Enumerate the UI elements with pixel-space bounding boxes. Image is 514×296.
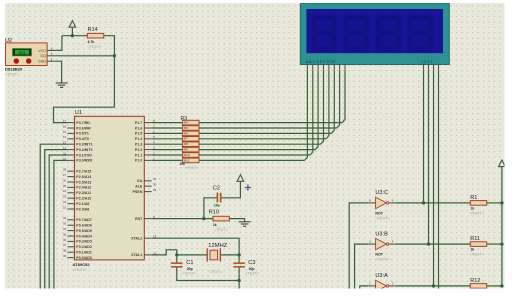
- U1 pin 4 P1.3: [144, 143, 151, 145]
- segment resistor 4: [183, 137, 199, 142]
- U1 pin 38 P0.1/AD1: [67, 251, 74, 253]
- segment resistor 2: [183, 126, 199, 131]
- U1 pin 12 P3.2/INT0: [67, 149, 74, 151]
- svg-text:P2.5/A13: P2.5/A13: [76, 180, 91, 184]
- svg-text:P2.1/A9: P2.1/A9: [76, 202, 89, 206]
- U1 pin 3 P1.2: [144, 149, 151, 151]
- wire segment resistor 7 to LCD pin: [199, 70, 313, 155]
- svg-text:NOT: NOT: [375, 211, 383, 215]
- svg-text:ALE: ALE: [135, 185, 143, 189]
- svg-text:1k: 1k: [471, 248, 475, 252]
- wire P1.7 to segment resistor: [152, 122, 183, 124]
- svg-text:C2: C2: [213, 186, 220, 192]
- svg-text:P1.0: P1.0: [135, 159, 142, 163]
- junction node 114.4,55.8: [113, 54, 116, 57]
- svg-text:1: 1: [51, 58, 53, 62]
- svg-text:XTAL1: XTAL1: [131, 253, 142, 257]
- svg-text:P1.2: P1.2: [135, 148, 142, 152]
- svg-text:R12: R12: [470, 278, 480, 284]
- capacitor C2: [217, 193, 220, 203]
- wire U3:C input: [349, 203, 368, 291]
- svg-text:3: 3: [51, 47, 53, 51]
- U3:C input pin: [368, 202, 375, 204]
- svg-text:GND: GND: [38, 60, 46, 64]
- svg-text:U3:A: U3:A: [375, 273, 388, 279]
- svg-text:U2: U2: [5, 38, 12, 44]
- svg-text:38: 38: [63, 249, 67, 253]
- svg-text:4.7k: 4.7k: [88, 40, 95, 44]
- svg-text:<TEXT>: <TEXT>: [209, 270, 224, 274]
- resistor R10: [213, 216, 229, 221]
- wire P1.5 to segment resistor: [152, 132, 183, 134]
- wire gnd rail down: [238, 281, 240, 292]
- U1 pin 34 P0.5/AD5: [67, 230, 74, 232]
- svg-text:18: 18: [153, 235, 157, 239]
- wire R11 to rail: [487, 243, 502, 245]
- wire segment resistor 5 to LCD pin: [199, 70, 324, 144]
- svg-text:16: 16: [63, 124, 67, 128]
- U3:A output pin: [389, 285, 396, 287]
- segment resistor 1: [183, 120, 199, 125]
- svg-text:13: 13: [63, 141, 67, 145]
- junction node 239.1,254.9: [237, 253, 240, 256]
- svg-text:<TEXT>: <TEXT>: [5, 72, 20, 76]
- svg-text:30p: 30p: [187, 267, 193, 271]
- wire P3.2 to bottom: [45, 150, 68, 291]
- svg-text:R9: R9: [184, 148, 188, 152]
- svg-text:22: 22: [63, 200, 67, 204]
- svg-text:P2.3/A11: P2.3/A11: [76, 191, 91, 195]
- wire C1 bottom to rail: [177, 267, 239, 281]
- svg-text:1k: 1k: [471, 207, 475, 211]
- svg-text:P1.3: P1.3: [135, 143, 142, 147]
- wire power stem top-left: [71, 27, 73, 36]
- svg-text:R8: R8: [184, 142, 188, 146]
- svg-text:<TEXT>: <TEXT>: [375, 216, 390, 220]
- svg-text:P0.7/AD7: P0.7/AD7: [76, 218, 92, 222]
- svg-text:<TEXT>: <TEXT>: [88, 45, 103, 49]
- U1 pin 36 P0.3/AD3: [67, 240, 74, 242]
- U1 pin 18 XTAL2: [144, 237, 151, 239]
- svg-text:23: 23: [63, 195, 67, 199]
- svg-text:C3: C3: [248, 260, 255, 266]
- svg-text:P2.0/A8: P2.0/A8: [76, 207, 89, 211]
- svg-text:DS18B20: DS18B20: [5, 66, 23, 71]
- junction node 176.8,254.9: [175, 253, 178, 256]
- wire R14 row left: [62, 35, 87, 37]
- svg-text:24: 24: [63, 189, 67, 193]
- power symbol top-left: [69, 21, 76, 28]
- wire R12 to rail: [487, 285, 502, 287]
- svg-text:36: 36: [63, 238, 67, 242]
- wire U2 DQ: [57, 55, 115, 57]
- LCD segment pin G: [339, 65, 341, 71]
- svg-text:35: 35: [63, 232, 67, 236]
- svg-text:27.0: 27.0: [19, 51, 26, 55]
- svg-text:21: 21: [63, 205, 67, 209]
- svg-text:NOT: NOT: [375, 253, 383, 257]
- svg-text:27: 27: [63, 173, 67, 177]
- svg-text:10u: 10u: [214, 203, 220, 207]
- wire segment resistor 6 to LCD pin: [199, 70, 318, 149]
- wire segment resistor 4 to LCD pin: [199, 70, 329, 139]
- svg-text:P3.0/RXD: P3.0/RXD: [76, 159, 92, 163]
- wire C2 right to power: [221, 181, 240, 198]
- wire XTAL2 row: [152, 238, 239, 263]
- svg-text:P2.7/A15: P2.7/A15: [76, 170, 91, 174]
- junction node 428.5,244.1: [427, 242, 430, 245]
- svg-text:P0.2/AD2: P0.2/AD2: [76, 245, 92, 249]
- svg-text:XTAL2: XTAL2: [131, 237, 142, 241]
- svg-text:P3.5/T1: P3.5/T1: [76, 132, 89, 136]
- U1 pin 2 P1.1: [144, 154, 151, 156]
- svg-text:P0.0/AD0: P0.0/AD0: [76, 256, 92, 260]
- wire U3:A out to R12: [396, 285, 470, 287]
- svg-text:P1.6: P1.6: [135, 126, 142, 130]
- wire P1.3 to segment resistor: [152, 143, 183, 145]
- svg-text:P1.7: P1.7: [135, 121, 142, 125]
- power symbol right rail: [499, 160, 506, 167]
- U1 pin 32 P0.7/AD7: [67, 219, 74, 221]
- svg-text:P1.5: P1.5: [135, 132, 142, 136]
- svg-text:33: 33: [63, 222, 67, 226]
- LCD digit 4 segments: [407, 14, 435, 52]
- svg-text:<TEXT>: <TEXT>: [470, 211, 485, 215]
- svg-text:R11: R11: [184, 158, 190, 162]
- svg-text:P3.1/TXD: P3.1/TXD: [76, 153, 92, 157]
- svg-text:P3.2/INT0: P3.2/INT0: [76, 148, 92, 152]
- svg-text:R11: R11: [470, 236, 480, 242]
- svg-text:19: 19: [153, 251, 157, 255]
- svg-text:30p: 30p: [249, 267, 255, 271]
- svg-text:<TEXT>: <TEXT>: [182, 272, 197, 276]
- svg-text:26: 26: [63, 178, 67, 182]
- svg-text:17: 17: [63, 119, 67, 123]
- wire C2 left lead: [204, 198, 217, 219]
- wire C3 bottom lead: [238, 267, 240, 281]
- wire P3.0 to bottom: [54, 160, 68, 291]
- inverter gate U3:C: [376, 197, 389, 208]
- wire P1.2 to segment resistor: [152, 149, 183, 151]
- svg-text:P1.1: P1.1: [135, 153, 142, 157]
- resistor R11: [470, 242, 486, 247]
- junction node 433.5,285.9: [432, 284, 435, 287]
- svg-text:<TEXT>: <TEXT>: [214, 228, 229, 232]
- capacitor C1: [171, 263, 183, 267]
- U1 pin 17 P3.7/RD: [67, 122, 74, 124]
- U1 pin 24 P2.3/A11: [67, 192, 74, 194]
- crystal X1 12MHZ: [207, 248, 220, 261]
- wire DQ to U1 pin17: [54, 56, 115, 123]
- U3:C output pin: [389, 202, 396, 204]
- svg-text:P0.3/AD3: P0.3/AD3: [76, 240, 92, 244]
- LCD digit pin 4: [438, 65, 440, 71]
- svg-text:P3.7/RD: P3.7/RD: [76, 121, 90, 125]
- U3:B input pin: [368, 243, 375, 245]
- svg-text:P0.5/AD5: P0.5/AD5: [76, 229, 92, 233]
- microcontroller U1 AT89C52 body: [75, 116, 145, 260]
- LCD digit pin 3: [433, 65, 435, 71]
- resistor R1: [470, 201, 486, 206]
- svg-text:AT89C52: AT89C52: [73, 262, 91, 267]
- segment resistor 6: [183, 147, 199, 152]
- U1 pin 15 P3.5/T1: [67, 132, 74, 134]
- svg-text:31: 31: [153, 177, 157, 181]
- junction node 72.4,35.7: [71, 34, 74, 37]
- svg-text:P2.6/A14: P2.6/A14: [76, 175, 91, 179]
- wire P1.1 to segment resistor: [152, 154, 183, 156]
- svg-text:P0.6/AD6: P0.6/AD6: [76, 224, 92, 228]
- wire U3:B out to R11: [396, 243, 470, 245]
- svg-text:1 2 3 4: 1 2 3 4: [421, 60, 432, 64]
- svg-text:U3:C: U3:C: [375, 190, 388, 196]
- svg-text:<TEXT>: <TEXT>: [375, 258, 390, 262]
- U1 pin 19 XTAL1: [144, 254, 151, 256]
- wire segment resistor 1 to LCD pin: [199, 70, 345, 122]
- wire P1.0 to segment resistor: [152, 159, 183, 161]
- segment resistor 3: [183, 131, 199, 136]
- LCD segment pin E: [328, 65, 330, 71]
- LCD segment pin A: [306, 65, 308, 71]
- svg-text:<TEXT>: <TEXT>: [470, 253, 485, 257]
- U1 pin 8 P1.7: [144, 122, 151, 124]
- LCD segment pin F: [333, 65, 335, 71]
- junction node 239.1,280.5: [237, 279, 240, 282]
- svg-text:R10: R10: [209, 209, 219, 215]
- ground R10: [239, 222, 251, 226]
- U1 pin 5 P1.4: [144, 138, 151, 140]
- LCD digit 3 segments: [375, 14, 403, 52]
- wire segment resistor 3 to LCD pin: [199, 70, 334, 133]
- segment resistor 7: [183, 153, 199, 158]
- svg-text:12MHZ: 12MHZ: [208, 243, 227, 249]
- svg-text:14: 14: [63, 135, 67, 139]
- svg-text:P2.4/A12: P2.4/A12: [76, 186, 91, 190]
- U1 pin 28 P2.7/A15: [67, 170, 74, 172]
- svg-text:R14: R14: [88, 27, 98, 33]
- U1 pin 26 P2.5/A13: [67, 181, 74, 183]
- svg-text:15: 15: [63, 130, 67, 134]
- resistor R12: [470, 284, 486, 289]
- U1 pin 7 P1.6: [144, 127, 151, 129]
- U1 pin 21 P2.0/A8: [67, 208, 74, 210]
- wire crystal left lead: [177, 254, 207, 256]
- svg-text:P0.4/AD4: P0.4/AD4: [76, 234, 92, 238]
- U1 pin 27 P2.6/A14: [67, 176, 74, 178]
- svg-text:EA: EA: [137, 179, 142, 183]
- wire XTAL1 jog: [152, 250, 177, 263]
- U1 pin 31 EA: [144, 180, 151, 182]
- wire R1 to rail: [487, 202, 502, 204]
- LCD digit pin 1: [423, 65, 425, 71]
- U1 pin 22 P2.1/A9: [67, 203, 74, 205]
- svg-text:30: 30: [153, 183, 157, 187]
- U1 pin 29 PSEN: [144, 191, 151, 193]
- wire LCD pin4 down: [438, 70, 440, 291]
- U1 pin 39 P0.0/AD0: [67, 257, 74, 259]
- svg-text:VCC: VCC: [38, 49, 46, 53]
- wire U2 GND down: [57, 61, 62, 83]
- svg-text:U1: U1: [75, 110, 82, 116]
- wire U3:C out to R1: [396, 202, 470, 204]
- wire LCD pin1 to U3:C out: [423, 70, 425, 203]
- svg-text:P0.1/AD1: P0.1/AD1: [76, 251, 92, 255]
- svg-text:C1: C1: [186, 260, 193, 266]
- inverter gate U3:B: [376, 238, 389, 249]
- junction node 501.9,244.1: [500, 242, 503, 245]
- svg-text:<TEXT>: <TEXT>: [245, 272, 260, 276]
- LCD digit 2 segments: [343, 14, 371, 52]
- U1 pin 37 P0.2/AD2: [67, 246, 74, 248]
- svg-text:<TEXT>: <TEXT>: [185, 166, 200, 170]
- svg-text:P3.4/T0: P3.4/T0: [76, 137, 89, 141]
- svg-text:R7: R7: [184, 137, 188, 141]
- svg-text:12: 12: [63, 146, 67, 150]
- svg-text:R6: R6: [184, 131, 188, 135]
- junction node 423.5,202.9: [422, 201, 425, 204]
- svg-text:2: 2: [51, 52, 53, 56]
- svg-text:28: 28: [63, 168, 67, 172]
- svg-text:11: 11: [63, 151, 66, 155]
- wire P1.6 to segment resistor: [152, 127, 183, 129]
- temperature sensor U2 DS18B20: [6, 43, 48, 66]
- U3:B output pin: [389, 243, 396, 245]
- svg-text:P1.4: P1.4: [135, 137, 142, 141]
- segment resistor 5: [183, 142, 199, 147]
- svg-text:P3.6/WR: P3.6/WR: [76, 126, 91, 130]
- wire U3:A input: [360, 286, 369, 291]
- svg-text:DQ: DQ: [41, 54, 47, 58]
- U1 pin 9 RST: [144, 218, 151, 220]
- svg-text:P3.3/INT1: P3.3/INT1: [76, 143, 92, 147]
- svg-text:PSEN: PSEN: [133, 190, 143, 194]
- svg-text:39: 39: [63, 254, 67, 258]
- svg-text:U3:B: U3:B: [375, 231, 388, 237]
- wire segment resistor 8 to LCD pin: [199, 70, 307, 160]
- capacitor C3: [233, 263, 245, 267]
- wire P1.4 to segment resistor: [152, 138, 183, 140]
- wire P3.3 to bottom: [40, 144, 67, 291]
- U1 pin 25 P2.4/A12: [67, 186, 74, 188]
- resistor R14: [87, 33, 103, 38]
- U1 pin 30 ALE: [144, 185, 151, 187]
- U1 pin 33 P0.6/AD6: [67, 224, 74, 226]
- svg-text:R5: R5: [184, 126, 188, 130]
- ground U2: [56, 83, 68, 87]
- LCD segment pin B: [312, 65, 314, 71]
- svg-text:R4: R4: [184, 121, 188, 125]
- svg-text:34: 34: [63, 227, 67, 231]
- LCD segment pin C: [317, 65, 319, 71]
- U1 pin 10 P3.0/RXD: [67, 159, 74, 161]
- wire R14 right to DQ: [104, 36, 115, 56]
- svg-text:32: 32: [63, 216, 67, 220]
- wire U2 VCC to R14 row: [57, 36, 62, 51]
- inverter gate U3:A: [376, 280, 389, 291]
- junction node 501.9,202.9: [500, 201, 503, 204]
- LCD segment pin DP: [344, 65, 346, 71]
- U1 pin 11 P3.1/TXD: [67, 154, 74, 156]
- svg-text:R10: R10: [184, 153, 190, 157]
- U1 pin 23 P2.2/A10: [67, 197, 74, 199]
- svg-text:37: 37: [63, 243, 67, 247]
- LCD segment pin D: [323, 65, 325, 71]
- wire RST row: [152, 218, 213, 220]
- U1 pin 1 P1.0: [144, 159, 151, 161]
- wire R10 to ground: [229, 219, 244, 222]
- U1 pin 14 P3.4/T0: [67, 138, 74, 140]
- wire segment resistor 2 to LCD pin: [199, 70, 340, 128]
- junction node 203.9,218.6: [202, 217, 205, 220]
- svg-text:RST: RST: [135, 217, 143, 221]
- svg-text:<TEXT>: <TEXT>: [73, 268, 88, 272]
- U2 pin DQ: [47, 55, 57, 57]
- U1 pin 35 P0.4/AD4: [67, 235, 74, 237]
- svg-text:25: 25: [63, 184, 67, 188]
- wire crystal right lead: [220, 254, 239, 256]
- U2 pin GND: [47, 60, 57, 62]
- LCD digit 1 segments: [311, 14, 339, 52]
- U1 pin 6 P1.5: [144, 132, 151, 134]
- U2 pin VCC: [47, 49, 57, 51]
- wire LCD pin3 to U3:A out: [433, 70, 435, 286]
- U3:A input pin: [368, 285, 375, 287]
- svg-text:A B C D E F G DP: A B C D E F G DP: [306, 60, 336, 64]
- svg-text:29: 29: [153, 188, 157, 192]
- LCD digit pin 2: [428, 65, 430, 71]
- wire U3:B input: [355, 244, 369, 291]
- svg-text:10: 10: [63, 157, 67, 161]
- svg-text:R1: R1: [470, 195, 477, 201]
- segment resistor 8: [183, 158, 199, 163]
- junction node 501.9,285.9: [500, 284, 503, 287]
- power symbol mid (VCC for C2): [237, 175, 244, 182]
- origin marker (blue cross): [245, 184, 251, 190]
- svg-text:1k: 1k: [213, 223, 217, 227]
- 7-segment LCD display module: [300, 3, 449, 64]
- svg-text:P2.2/A10: P2.2/A10: [76, 197, 91, 201]
- U1 pin 16 P3.6/WR: [67, 127, 74, 129]
- U1 pin 13 P3.3/INT1: [67, 143, 74, 145]
- wire LCD pin2 to U3:B out: [428, 70, 430, 244]
- wire VCC rail right: [501, 167, 503, 286]
- wire P3.1 to bottom: [49, 155, 67, 291]
